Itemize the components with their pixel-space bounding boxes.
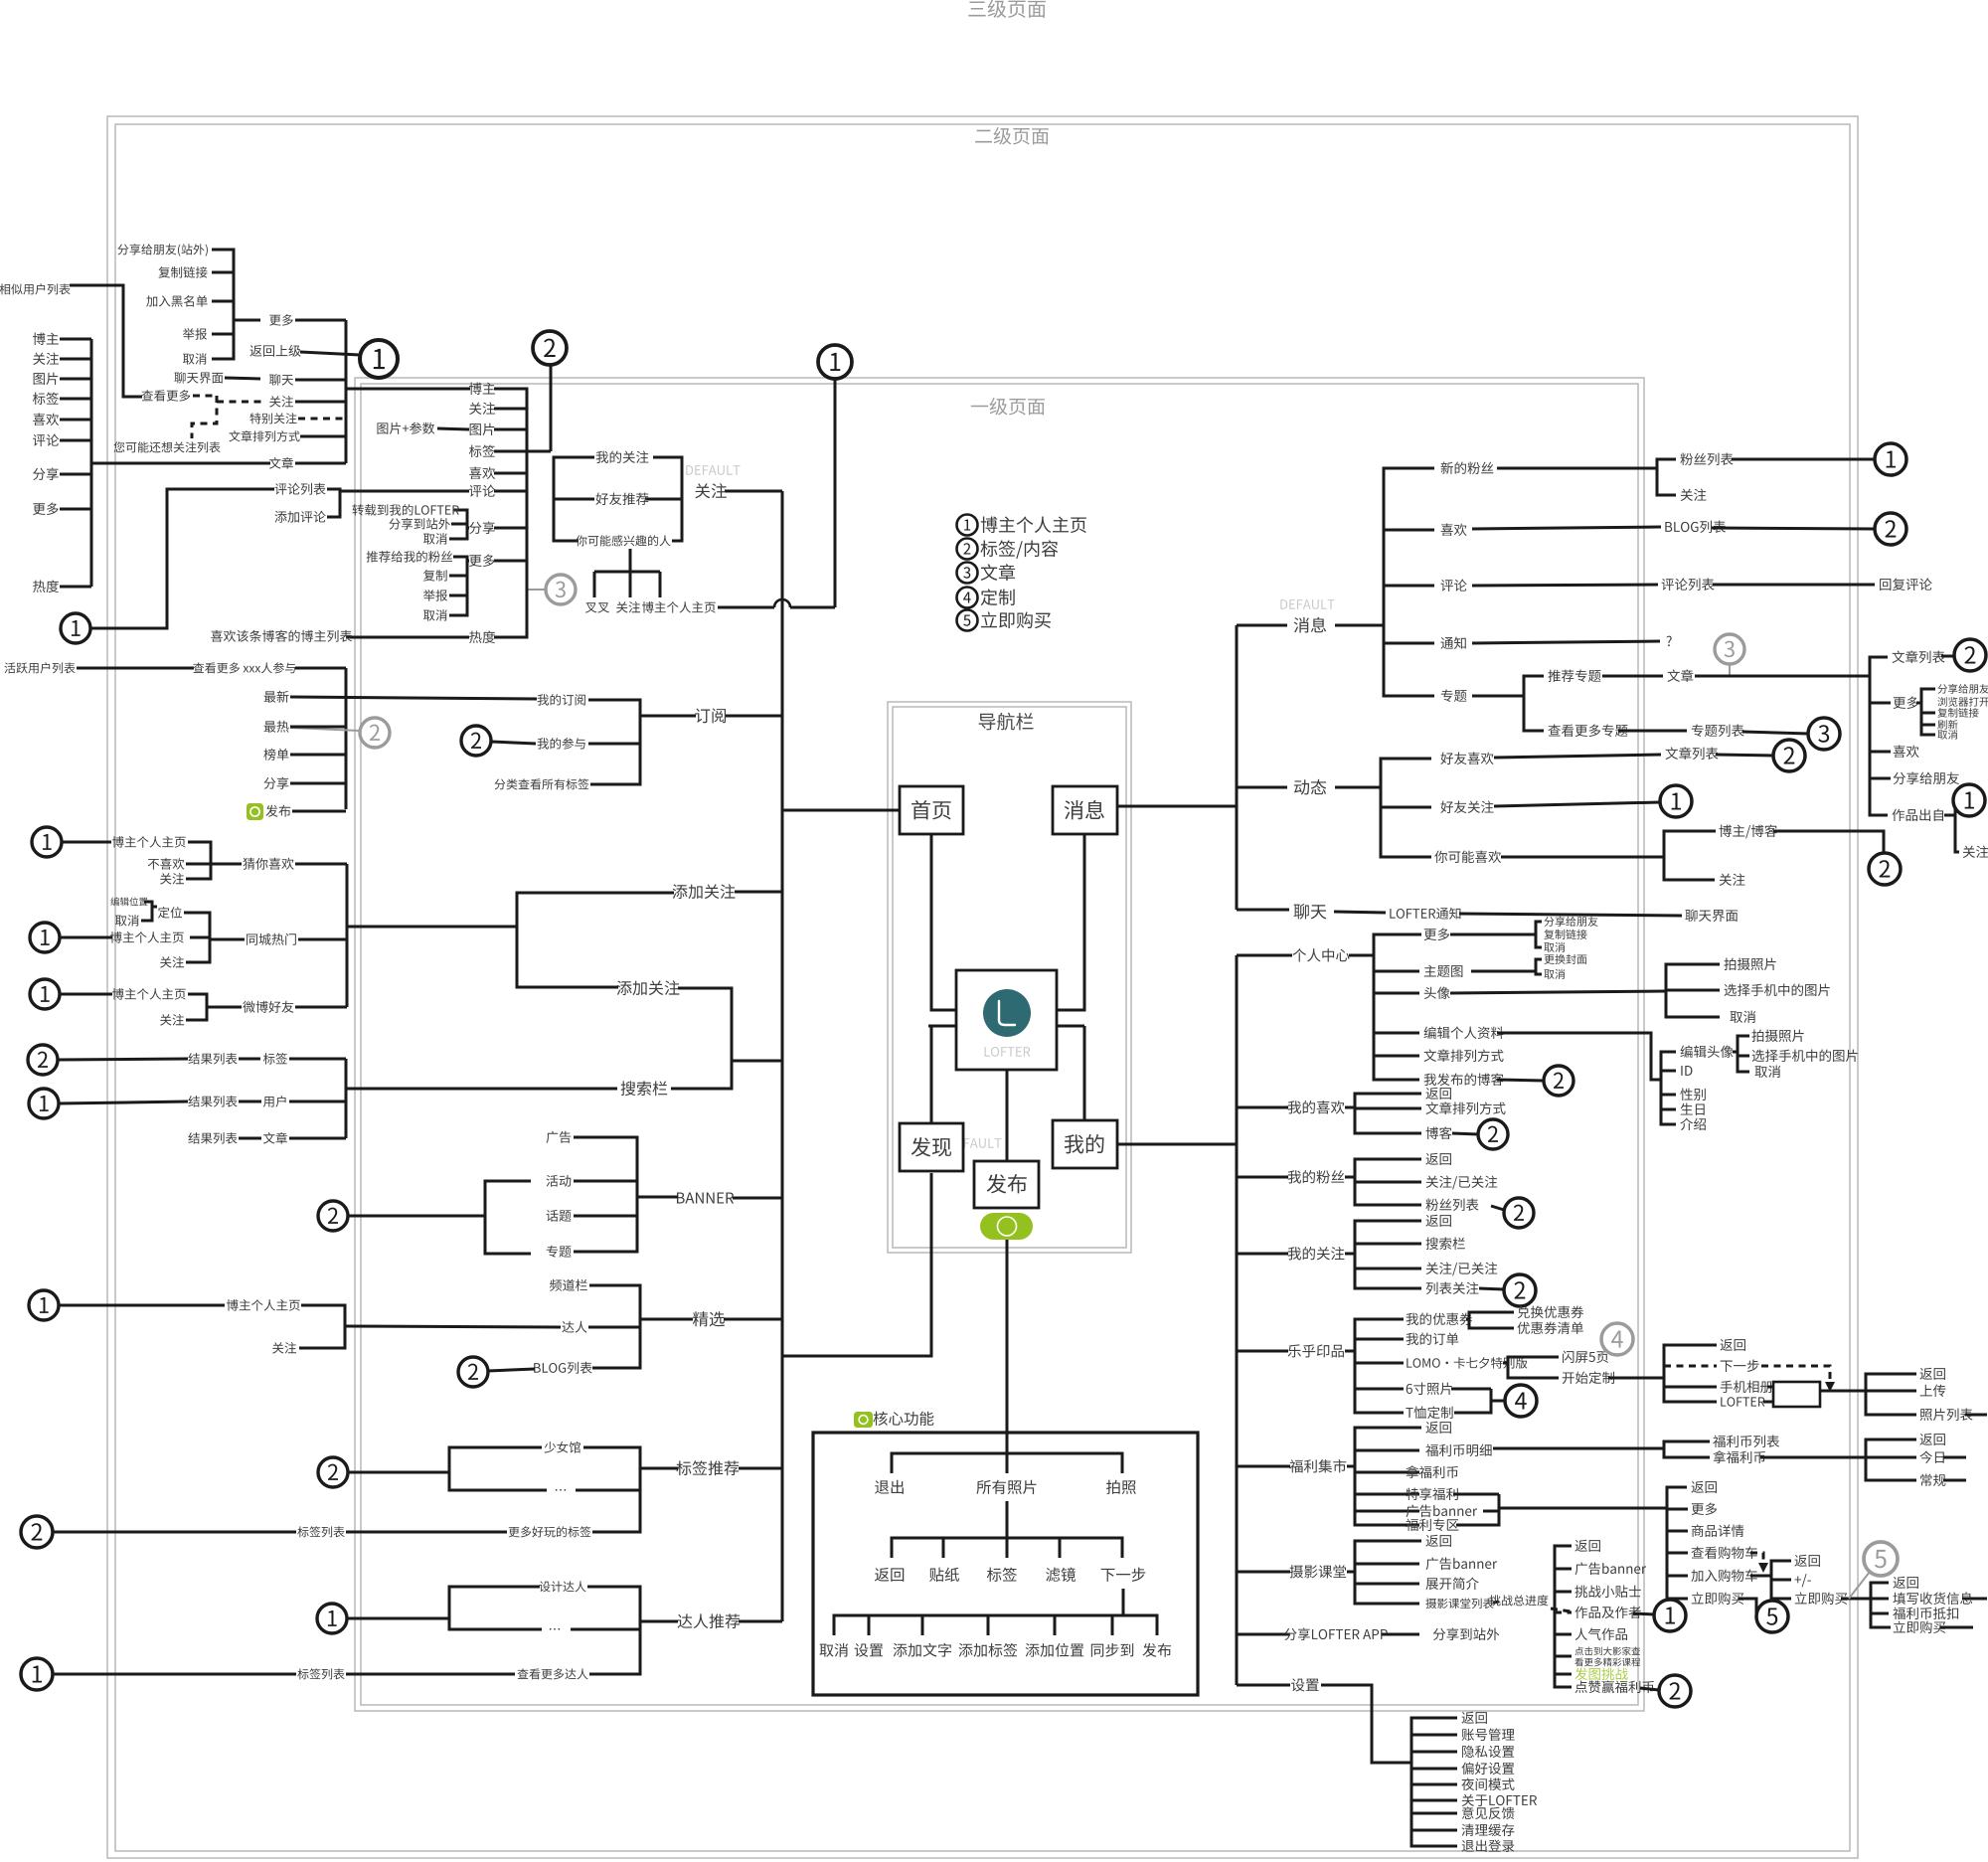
node 照片列表 bbox=[1920, 1409, 1973, 1421]
wire 好友喜欢-文章列表 bbox=[1494, 755, 1661, 758]
node 设置 bbox=[1291, 1678, 1319, 1691]
wire 我的 box to right trunk bbox=[1117, 1143, 1237, 1146]
node 更多 bbox=[469, 555, 495, 567]
node 更多好玩的标签 bbox=[509, 1526, 591, 1537]
node 推荐给我的粉丝 bbox=[367, 551, 452, 563]
wire 立即购买 to circled5 bbox=[1739, 1599, 1756, 1616]
wire 订阅-content bus bbox=[345, 668, 348, 809]
node 热度 (tier3 list) bbox=[33, 580, 59, 592]
node 查看更多专题 bbox=[1548, 725, 1627, 737]
node 你可能感兴趣的人 bbox=[576, 535, 670, 546]
label 核心功能 bbox=[874, 1412, 934, 1426]
node 选择手机中的图片 bbox=[1752, 1050, 1858, 1063]
node 广告 bbox=[547, 1131, 572, 1143]
wire 文章 long line right bbox=[1695, 675, 1870, 678]
box 我的 bbox=[1053, 1120, 1117, 1168]
node 关注/已关注 bbox=[1426, 1176, 1498, 1190]
circled 1 (结果列表 用户) bbox=[29, 1089, 59, 1118]
wire 你可能感兴趣的人 T-tree bbox=[629, 549, 632, 572]
node 博主 bbox=[469, 383, 495, 395]
wire 关注 to bus bbox=[725, 490, 782, 493]
circled 1 (达人推荐 group) bbox=[317, 1604, 347, 1633]
node 分享到站外 bbox=[1433, 1627, 1499, 1640]
node 取消 bbox=[1731, 1011, 1756, 1023]
node 我的关注 bbox=[1288, 1247, 1345, 1260]
node 分享 bbox=[264, 777, 289, 789]
node 下一步 bbox=[1721, 1360, 1759, 1372]
node 闪屏5页 bbox=[1563, 1351, 1608, 1363]
node 专题 bbox=[547, 1246, 572, 1258]
node 更多 bbox=[1692, 1503, 1718, 1515]
node 广告banner bbox=[1407, 1505, 1478, 1518]
wire long line into 博主 bbox=[347, 388, 470, 391]
wire 标签推荐 left bracket bbox=[449, 1447, 547, 1490]
node ID bbox=[1681, 1066, 1692, 1076]
node 评论 (tier3 list) bbox=[33, 434, 59, 446]
node 分享 (tier3 list) bbox=[33, 467, 59, 480]
node 添加位置 bbox=[1026, 1643, 1084, 1657]
node 标签列表 bbox=[297, 1526, 344, 1537]
wire 摄影课堂 branch bbox=[1237, 1571, 1290, 1574]
node ? bbox=[1667, 636, 1672, 646]
wire 添加关注#1 branch bbox=[735, 891, 782, 894]
node 我的订阅 bbox=[538, 694, 585, 706]
wire 我发布的博客 to circled2 bbox=[1497, 1080, 1544, 1081]
node 今日 bbox=[1919, 1450, 1943, 1463]
wire 我的关注 children bracket bbox=[1345, 1253, 1355, 1256]
node 立即购买 bbox=[1894, 1620, 1945, 1633]
node BANNER (tier1) bbox=[677, 1193, 734, 1204]
node 个人中心 bbox=[1293, 948, 1350, 961]
wire 关注 children bracket bbox=[653, 457, 682, 541]
node 回复评论 bbox=[1880, 579, 1932, 591]
node LOFTER通知 bbox=[1390, 908, 1460, 920]
node 我的参与 bbox=[538, 738, 585, 750]
node 返回 bbox=[1691, 1481, 1716, 1493]
node 福利币明细 bbox=[1425, 1444, 1491, 1457]
node 发布 bbox=[265, 805, 290, 817]
legend circled 2 标签/内容 bbox=[957, 539, 978, 560]
node 评论 bbox=[469, 485, 495, 497]
node 作品出自 bbox=[1892, 809, 1943, 821]
node 偏好设置 bbox=[1461, 1763, 1514, 1776]
wire 消息 branch bbox=[1237, 624, 1287, 627]
node 返回 bbox=[1425, 1535, 1450, 1547]
node 专题 bbox=[1441, 690, 1467, 702]
node 结果列表 bbox=[188, 1132, 237, 1144]
circled 1 (好友关注) bbox=[1660, 785, 1692, 817]
node LOMO·卡七夕特别版 bbox=[1407, 1357, 1527, 1369]
node 拍摄照片 bbox=[1724, 958, 1775, 970]
wire 精选 to bus bbox=[724, 1318, 782, 1321]
node 好友推荐 bbox=[595, 493, 648, 505]
wire 微博好友 to bus bbox=[295, 1006, 347, 1009]
wire 分享给朋友 bracket (更多 children) bbox=[212, 250, 234, 359]
wire 上传 bracket bbox=[1866, 1374, 1916, 1415]
node 商品详情 bbox=[1692, 1525, 1744, 1537]
wire 评论 to 评论列表 bbox=[1472, 585, 1658, 586]
node 文章排列方式 bbox=[1425, 1101, 1505, 1114]
node 返回 bbox=[1794, 1555, 1819, 1567]
node 返回 bbox=[1425, 1422, 1450, 1434]
wire 我的粉丝 children bracket bbox=[1345, 1176, 1355, 1179]
wire 订阅 children bracket bbox=[588, 700, 640, 784]
wire 聊天 branch bbox=[1237, 909, 1289, 912]
node 添加文字 bbox=[894, 1643, 951, 1657]
wire 发布 pill to core box bbox=[1006, 1239, 1009, 1433]
wire 达人推荐 to bus bbox=[739, 1620, 782, 1623]
wire 摄影课堂 children bracket bbox=[1347, 1571, 1355, 1574]
circled 5 gray (立即购买) bbox=[1849, 1572, 1870, 1599]
wire 搜索 bus bbox=[345, 1059, 348, 1138]
wire 评论列表 elbow bbox=[90, 489, 274, 628]
node 更多 (tier3 list) bbox=[33, 503, 59, 515]
node 添加关注 #2 (tier1) bbox=[617, 980, 680, 995]
wire right trunk1 (消息 group) bbox=[1236, 625, 1239, 910]
circled 1 (微博好友) bbox=[30, 979, 60, 1009]
node 查看购物车 bbox=[1691, 1546, 1756, 1559]
node 更多 bbox=[1894, 697, 1919, 709]
node 关注 bbox=[1963, 846, 1988, 858]
wire 商品 big bracket bbox=[1667, 1487, 1688, 1599]
frame 导航栏 inner bbox=[893, 707, 1126, 1248]
wire 头像 children bracket bbox=[1450, 991, 1666, 993]
label 三级页面 bbox=[968, 0, 1046, 18]
wire 我的喜欢 branch bbox=[1237, 1106, 1288, 1109]
wire 搜索 bus to 搜索栏 bbox=[346, 1088, 617, 1091]
node 编辑位置 (small) bbox=[110, 897, 147, 906]
node 取消 bbox=[423, 609, 447, 621]
wire 发现 riser bbox=[782, 1173, 931, 1356]
node 喜欢 bbox=[1441, 524, 1467, 536]
wire 设置 children bracket bbox=[1411, 1718, 1457, 1846]
node 分享到站外 bbox=[389, 518, 450, 530]
wire 首页 to LOFTER logo bbox=[931, 834, 955, 1010]
node 话题 bbox=[547, 1210, 572, 1222]
node 活动 bbox=[547, 1175, 572, 1187]
node 头像 bbox=[1424, 987, 1450, 999]
frame 一级页面 inner bbox=[361, 384, 1638, 1705]
node 添加标签 bbox=[959, 1643, 1018, 1657]
wire right trunk2 (我的 group) bbox=[1236, 955, 1239, 1685]
node 关注 bbox=[272, 1342, 296, 1354]
node 热度 bbox=[469, 630, 495, 643]
node 夜间模式 bbox=[1461, 1777, 1514, 1790]
label LOFTER (logo) bbox=[985, 1047, 1031, 1057]
wire 标签推荐 right bracket bbox=[583, 1447, 640, 1532]
node 猜你喜欢 bbox=[243, 858, 293, 870]
circled 1 (粉丝列表) bbox=[1875, 443, 1906, 475]
node 同城热门 bbox=[247, 933, 296, 945]
wire BANNER to bus bbox=[733, 1197, 782, 1200]
node 设计达人 bbox=[540, 1581, 586, 1592]
wire 作品出自 bracket bbox=[1944, 814, 1955, 817]
wire 查看更多专题-专题列表 bbox=[1618, 730, 1687, 733]
wire 收货 bracket bbox=[1871, 1583, 1891, 1627]
wire 精选-left bracket bbox=[299, 1305, 345, 1348]
node 隐私设置 bbox=[1462, 1746, 1514, 1758]
node 标签 bbox=[263, 1053, 287, 1065]
node 结果列表 bbox=[188, 1053, 237, 1065]
node 我的订单 bbox=[1407, 1333, 1459, 1346]
node 人气作品 bbox=[1575, 1628, 1627, 1640]
node 浏览器打开 (small) bbox=[1937, 697, 1988, 707]
box 消息 bbox=[1053, 786, 1117, 834]
circled 1 (评论列表) bbox=[61, 613, 90, 643]
node 填写收货信息 bbox=[1893, 1592, 1972, 1605]
wire 更多 small bracket bbox=[1916, 689, 1935, 703]
node 取消 bbox=[423, 533, 447, 545]
node 优惠券清单 bbox=[1517, 1322, 1582, 1334]
node ... bbox=[556, 1489, 566, 1491]
node 看更多精彩课程 (tiny) bbox=[1574, 1658, 1640, 1667]
wire main level-1 bus bbox=[781, 491, 784, 1621]
circled 2 (博客) bbox=[1478, 1119, 1508, 1149]
frame 导航栏 outer bbox=[888, 702, 1131, 1253]
wire 文章排列方式 to bus bbox=[300, 435, 346, 438]
node 转载到我的LOFTER bbox=[352, 504, 458, 516]
wire circled2 riser bbox=[550, 366, 553, 451]
box 核心功能 bbox=[813, 1433, 1198, 1695]
node 返回 bbox=[1919, 1434, 1944, 1445]
wire 我的喜欢 children bracket bbox=[1345, 1106, 1355, 1109]
node 推荐专题 bbox=[1548, 670, 1600, 682]
node 分享给朋友(站外) bbox=[117, 244, 207, 256]
node 开始定制 bbox=[1563, 1371, 1614, 1384]
label DEFAULT near 关注 bbox=[686, 465, 740, 475]
wire LOFTER通知-聊天界面 bbox=[1459, 914, 1682, 916]
node 标签列表 bbox=[297, 1668, 344, 1679]
wire 动态 branch bbox=[1237, 786, 1287, 789]
node 选择手机中的图片 bbox=[1725, 984, 1830, 997]
wire 喜欢该条博客的博主列表 to 热度 bbox=[346, 636, 469, 639]
node 返回 bbox=[1461, 1712, 1486, 1724]
wire 福利币列表 bracket bbox=[1664, 1441, 1710, 1457]
wire 粉丝列表 to circled2 bbox=[1491, 1206, 1504, 1210]
node 分享给朋友 (small) bbox=[1544, 917, 1597, 927]
label 二级页面 bbox=[975, 127, 1049, 145]
circled 2 (粉丝列表) bbox=[1504, 1198, 1534, 1228]
node 定位 bbox=[158, 907, 182, 919]
wire right-column bus bbox=[345, 320, 348, 463]
node ... bbox=[550, 1628, 560, 1630]
wire 主题图 sub bracket bbox=[1471, 970, 1536, 973]
node 聊天界面 bbox=[1685, 910, 1738, 922]
wire 博客-list bracket bbox=[494, 389, 527, 637]
wire 博主个人主页 hop to circled-1 bbox=[718, 606, 774, 609]
wire 相似用户列表 elbow bbox=[70, 285, 142, 397]
node 添加关注 (tier1) bbox=[673, 884, 736, 899]
node 评论列表 bbox=[1662, 579, 1715, 592]
circled 2 (标签列表) bbox=[21, 1516, 53, 1548]
wire 更多 to bus bbox=[295, 319, 346, 322]
node 介绍 bbox=[1680, 1117, 1706, 1130]
wire 我的粉丝 branch bbox=[1237, 1176, 1288, 1179]
node 文章 bbox=[1667, 669, 1693, 682]
wire 手机相册 to box bbox=[1767, 1386, 1773, 1389]
node 文章 bbox=[269, 457, 293, 469]
node 榜单 bbox=[263, 749, 288, 761]
circled 5 (立即购买) bbox=[1756, 1601, 1788, 1632]
circled 2 (BLOG列表 right) bbox=[1875, 513, 1906, 545]
label 导航栏 bbox=[979, 713, 1034, 731]
node 编辑个人资料 bbox=[1424, 1026, 1504, 1039]
node 举报 bbox=[183, 328, 207, 340]
legend circled 3 文章 bbox=[957, 563, 978, 584]
node 分享 bbox=[469, 521, 495, 534]
wire LOMO bracket bbox=[1503, 1362, 1508, 1365]
green icon 核心功能 bbox=[854, 1412, 873, 1428]
node 常规 bbox=[1920, 1474, 1945, 1486]
node 分享给朋友 (small) bbox=[1937, 684, 1988, 694]
node 加入购物车 bbox=[1691, 1569, 1756, 1582]
wire 专题 to bracket bbox=[1472, 695, 1524, 698]
wire 推荐专题-文章 bbox=[1602, 675, 1663, 678]
label 一级页面 bbox=[971, 398, 1045, 416]
node 立即购买 bbox=[1692, 1592, 1743, 1605]
node 立即购买 (cart) bbox=[1795, 1592, 1847, 1605]
node 返回 bbox=[1425, 1153, 1450, 1165]
node 喜欢 (tier3 list) bbox=[33, 414, 59, 425]
wire 达人推荐 right bracket bbox=[587, 1587, 640, 1674]
wire BANNER left bracket bbox=[485, 1181, 531, 1254]
node 标签 bbox=[987, 1568, 1017, 1582]
box 首页 bbox=[900, 786, 963, 834]
node 取消 (small) bbox=[1544, 969, 1565, 979]
node 查看更多达人 bbox=[517, 1668, 587, 1679]
node 喜欢 bbox=[1894, 746, 1919, 758]
wire 同城热门 to bus bbox=[210, 938, 245, 941]
node 博主个人主页 bbox=[227, 1299, 300, 1311]
node 返回 bbox=[1574, 1540, 1599, 1552]
node 复制链接 (small) bbox=[1937, 708, 1978, 718]
wire 点赞赢福利币 to circled2 bbox=[1640, 1688, 1659, 1690]
dashed 查看购物车 arrow bbox=[1750, 1553, 1763, 1563]
wire 你可能喜欢 bracket bbox=[1501, 856, 1664, 859]
node 达人推荐 (tier1) bbox=[678, 1613, 741, 1628]
wire 乐乎印品 branch bbox=[1237, 1350, 1288, 1353]
node T恤定制 bbox=[1406, 1406, 1452, 1419]
wire circled-1 riser bbox=[834, 380, 837, 607]
wire 标签 to circled2 bbox=[527, 450, 551, 453]
node 订阅 (tier1) bbox=[695, 708, 726, 723]
node 博客 bbox=[1426, 1126, 1452, 1139]
node 图片+参数 bbox=[377, 423, 434, 434]
wire 猜你喜欢 bracket bbox=[186, 842, 211, 879]
node 喜欢该条博客的博主列表 bbox=[211, 630, 352, 642]
node 新的粉丝 bbox=[1441, 462, 1494, 474]
green icon 发布 bbox=[247, 803, 263, 820]
node 消息 (branch) bbox=[1294, 617, 1326, 633]
node 点击到大影家查 (tiny) bbox=[1574, 1646, 1640, 1655]
node 挑战小贴士 bbox=[1574, 1586, 1640, 1598]
circled 2 (标签/内容) bbox=[533, 331, 567, 365]
node 文章 bbox=[263, 1132, 287, 1144]
circled 2 (文章列表) bbox=[1954, 639, 1986, 671]
wire 微博好友 bracket bbox=[186, 994, 207, 1020]
wire bus to 首页 box bbox=[782, 809, 900, 812]
node 取消 bbox=[820, 1643, 848, 1657]
node 兑换优惠券 bbox=[1518, 1306, 1583, 1318]
node 复制 bbox=[423, 570, 447, 582]
node 点赞赢福利币 bbox=[1575, 1680, 1654, 1693]
node 关注 (tier3 list) bbox=[33, 353, 59, 365]
wire 精选 bracket bbox=[589, 1285, 640, 1368]
node 取消 bbox=[115, 915, 139, 927]
wire tier3 list to 文章 bbox=[91, 462, 270, 465]
node 粉丝列表 bbox=[1680, 453, 1733, 465]
wire 编辑个人资料 elbow bbox=[1497, 1033, 1661, 1080]
node 返回 bbox=[875, 1568, 904, 1582]
node 博主个人主页 bbox=[112, 988, 186, 1000]
wire 标签推荐 to bus bbox=[739, 1467, 782, 1470]
node 我的粉丝 bbox=[1288, 1170, 1345, 1183]
wire to 达人 bbox=[345, 1326, 561, 1327]
node 少女馆 bbox=[545, 1441, 580, 1453]
node 关注 bbox=[1681, 489, 1707, 501]
wire 消息 box to right trunk bbox=[1117, 805, 1237, 808]
legend circled 1 博主个人主页 bbox=[957, 515, 978, 536]
circled 1 (同城热门) bbox=[30, 923, 60, 952]
node 关注 bbox=[160, 1014, 184, 1026]
wire 列表关注 to circled2 bbox=[1479, 1288, 1504, 1289]
circled 2 (文章列表 2) bbox=[1773, 740, 1805, 771]
node 拿福利币 (list) bbox=[1406, 1465, 1457, 1478]
wire 评论列表 line to 评论 bbox=[340, 490, 469, 493]
wire 最新 long line to 我的订阅 bbox=[290, 697, 537, 699]
wire 优惠券 bracket bbox=[1466, 1318, 1469, 1321]
node 上传 bbox=[1920, 1385, 1946, 1397]
node 我的优惠券 bbox=[1407, 1313, 1473, 1326]
node 特享福利 bbox=[1407, 1487, 1458, 1500]
node 取消 bbox=[183, 353, 207, 365]
node 福利币列表 bbox=[1713, 1436, 1779, 1447]
node 返回 bbox=[1720, 1339, 1744, 1351]
node 返回 bbox=[1919, 1368, 1944, 1380]
node 发布 bbox=[1142, 1643, 1171, 1657]
node 清理缓存 bbox=[1461, 1824, 1514, 1836]
node 取消 (small) bbox=[1544, 942, 1565, 952]
node 标签 (tier3 list) bbox=[33, 392, 59, 404]
node 广告banner bbox=[1426, 1558, 1498, 1571]
node 搜索栏 (tier1) bbox=[621, 1081, 668, 1096]
circled 2 (博主/博客) bbox=[1869, 853, 1901, 885]
wire 福利集市 children bracket bbox=[1347, 1465, 1355, 1468]
node 关注 bbox=[469, 403, 495, 415]
node 摄影课堂 bbox=[1289, 1565, 1346, 1578]
node 聊天界面 bbox=[174, 372, 223, 384]
node 福利专区 bbox=[1406, 1519, 1458, 1531]
node 最热 bbox=[264, 721, 289, 733]
node 作品及作者 bbox=[1574, 1607, 1640, 1618]
node 聊天 (branch) bbox=[1294, 904, 1327, 920]
node 发图挑战 (green) bbox=[1574, 1668, 1627, 1681]
box 发现 bbox=[900, 1123, 963, 1171]
node 文章排列方式 bbox=[1423, 1049, 1503, 1062]
node 关注 bbox=[160, 956, 184, 968]
wire 分享LOFTER APP branch bbox=[1237, 1633, 1290, 1636]
node 图片 bbox=[470, 423, 495, 435]
dashed 查看更多 links bbox=[193, 395, 217, 398]
wire 喜欢 to BLOG列表 bbox=[1472, 527, 1661, 529]
wire 闪屏5页 to circled4 bbox=[1598, 1344, 1610, 1358]
node 下一步 bbox=[1101, 1568, 1146, 1582]
wire 定位 bracket small bbox=[141, 902, 152, 921]
node 拍摄照片 bbox=[1751, 1030, 1803, 1042]
circled 2 (列表关注) bbox=[1504, 1274, 1536, 1306]
node 相似用户列表 bbox=[0, 283, 71, 294]
label DEFAULT (发现) bbox=[947, 1138, 1001, 1148]
